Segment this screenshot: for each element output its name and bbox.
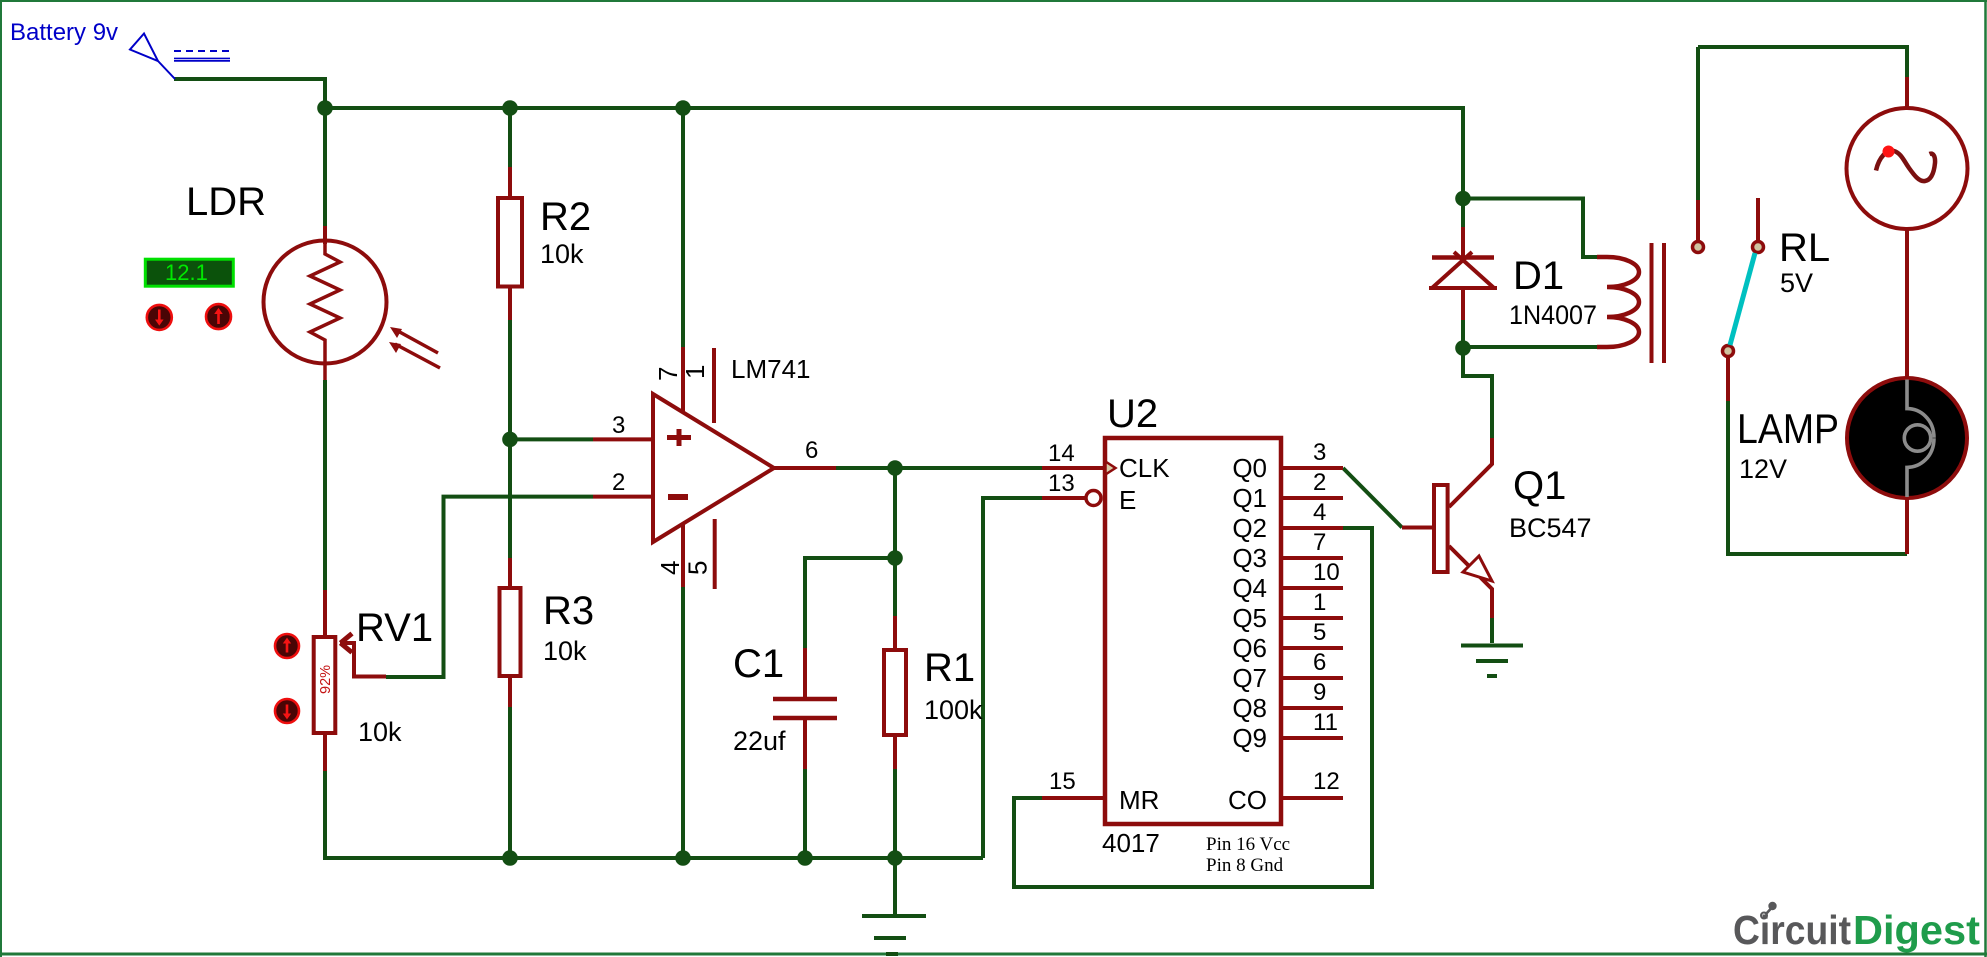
- svg-text:Q8: Q8: [1232, 693, 1267, 723]
- svg-text:Q1: Q1: [1232, 483, 1267, 513]
- svg-text:Q5: Q5: [1232, 603, 1267, 633]
- svg-text:CLK: CLK: [1119, 453, 1170, 483]
- svg-text:RV1: RV1: [356, 606, 433, 650]
- svg-text:10k: 10k: [540, 239, 584, 269]
- svg-text:12V: 12V: [1739, 454, 1787, 484]
- svg-text:R3: R3: [543, 589, 594, 633]
- svg-text:Q2: Q2: [1232, 513, 1267, 543]
- svg-text:3: 3: [612, 412, 625, 439]
- svg-text:10k: 10k: [543, 636, 587, 666]
- svg-text:9: 9: [1313, 679, 1326, 706]
- svg-text:15: 15: [1049, 768, 1076, 795]
- svg-text:CO: CO: [1228, 785, 1267, 815]
- svg-text:Battery 9v: Battery 9v: [10, 19, 118, 46]
- svg-text:5: 5: [683, 561, 713, 575]
- svg-text:6: 6: [1313, 649, 1326, 676]
- svg-text:LDR: LDR: [186, 180, 266, 224]
- svg-text:BC547: BC547: [1509, 513, 1592, 543]
- svg-text:Q4: Q4: [1232, 573, 1267, 603]
- svg-text:Q7: Q7: [1232, 663, 1267, 693]
- svg-text:Pin 8 Gnd: Pin 8 Gnd: [1206, 855, 1284, 876]
- svg-text:4: 4: [1313, 499, 1326, 526]
- svg-text:11: 11: [1313, 709, 1338, 736]
- svg-text:6: 6: [805, 437, 818, 464]
- svg-text:2: 2: [612, 469, 625, 496]
- svg-text:Q1: Q1: [1513, 464, 1566, 508]
- svg-text:3: 3: [1313, 439, 1326, 466]
- svg-text:D1: D1: [1513, 254, 1564, 298]
- svg-text:7: 7: [653, 367, 683, 381]
- svg-text:1: 1: [1313, 589, 1326, 616]
- svg-text:Digest: Digest: [1853, 907, 1980, 953]
- svg-text:2: 2: [1313, 469, 1326, 496]
- svg-text:LAMP: LAMP: [1737, 405, 1839, 452]
- svg-text:C1: C1: [733, 642, 784, 686]
- svg-text:E: E: [1119, 485, 1136, 515]
- svg-text:92%: 92%: [318, 665, 334, 694]
- svg-text:Pin 16 Vcc: Pin 16 Vcc: [1206, 834, 1290, 855]
- svg-text:Q9: Q9: [1232, 723, 1267, 753]
- svg-text:22uf: 22uf: [733, 726, 786, 756]
- svg-text:RL: RL: [1779, 226, 1830, 270]
- svg-text:100k: 100k: [924, 695, 983, 725]
- svg-text:R2: R2: [540, 195, 591, 239]
- svg-text:Circuit: Circuit: [1733, 907, 1851, 953]
- svg-text:10k: 10k: [358, 717, 402, 747]
- svg-text:1: 1: [680, 365, 710, 379]
- svg-text:12.1: 12.1: [165, 260, 208, 285]
- svg-text:5: 5: [1313, 619, 1326, 646]
- svg-text:Q6: Q6: [1232, 633, 1267, 663]
- svg-text:LM741: LM741: [731, 354, 811, 384]
- svg-text:Q0: Q0: [1232, 453, 1267, 483]
- svg-text:MR: MR: [1119, 785, 1159, 815]
- svg-text:14: 14: [1048, 440, 1075, 467]
- svg-text:R1: R1: [924, 646, 975, 690]
- svg-text:4017: 4017: [1102, 828, 1160, 858]
- svg-text:1N4007: 1N4007: [1509, 300, 1597, 330]
- svg-text:13: 13: [1048, 470, 1075, 497]
- svg-text:12: 12: [1313, 768, 1340, 795]
- svg-text:7: 7: [1313, 529, 1326, 556]
- svg-text:Q3: Q3: [1232, 543, 1267, 573]
- svg-text:4: 4: [655, 561, 685, 575]
- svg-text:10: 10: [1313, 559, 1340, 586]
- svg-text:U2: U2: [1107, 392, 1158, 436]
- svg-text:5V: 5V: [1780, 268, 1813, 298]
